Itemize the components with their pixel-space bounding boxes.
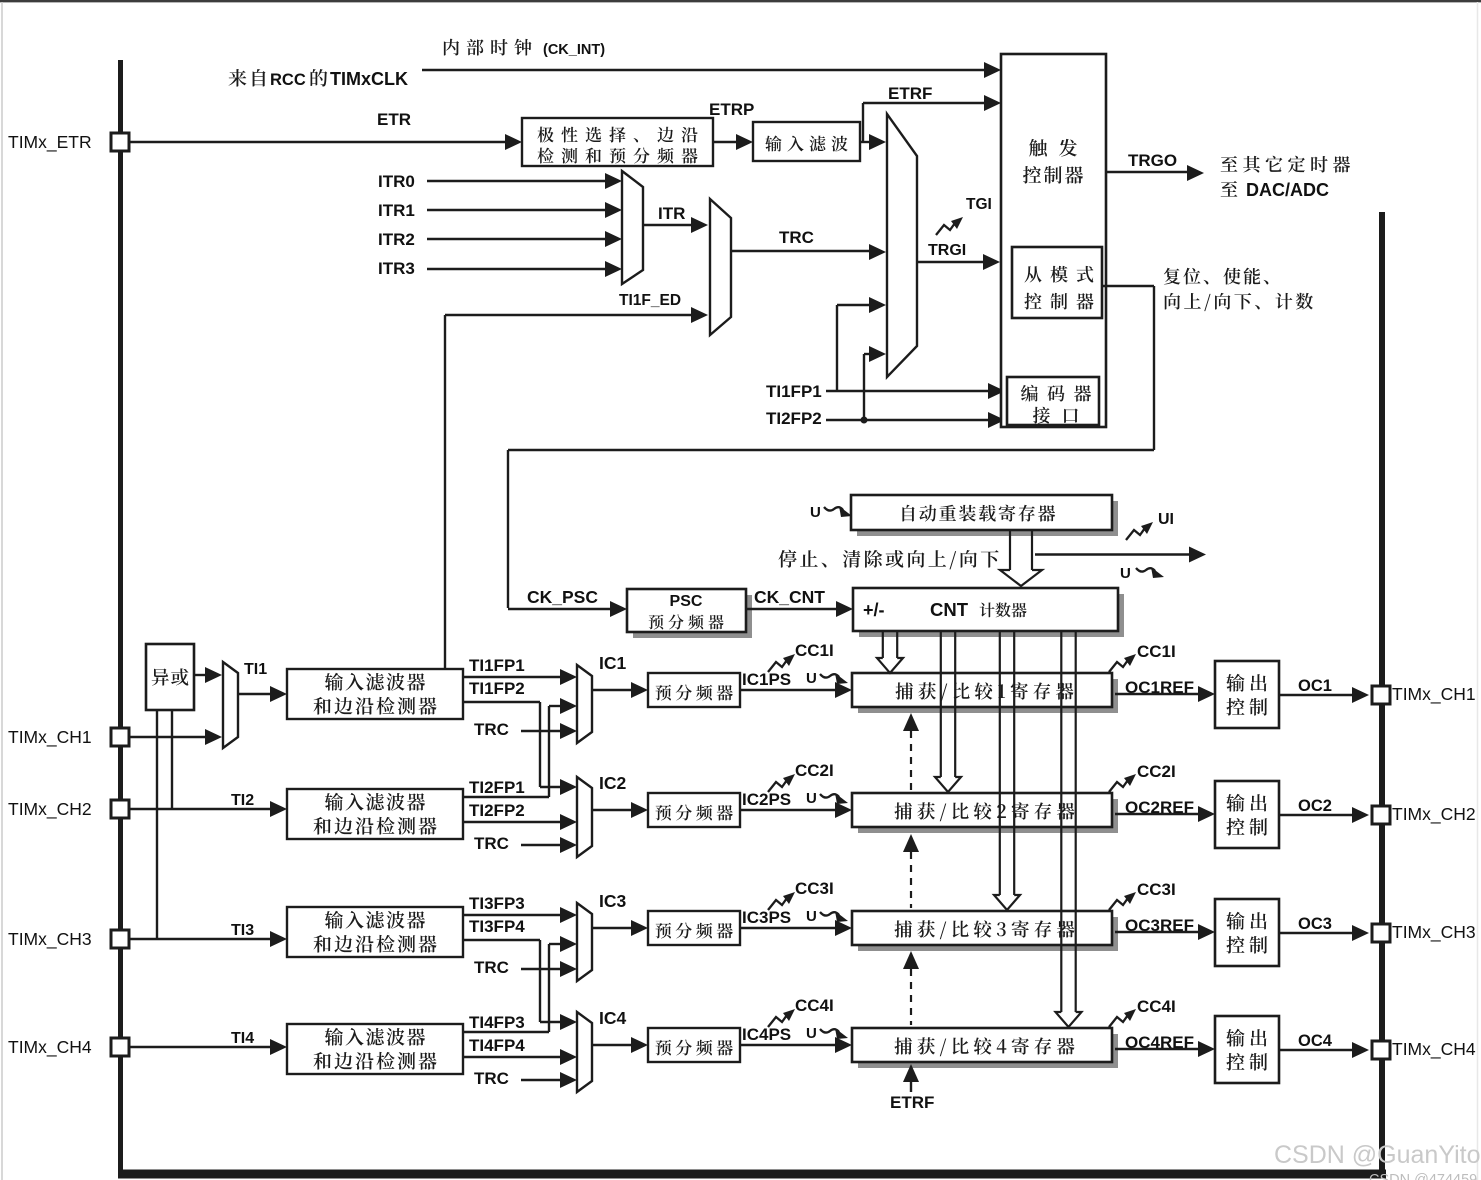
svg-text:CC2I: CC2I [1137, 762, 1176, 781]
squiggle CC4I left [768, 1009, 795, 1027]
svg-text:U: U [806, 790, 817, 807]
wire OC1REF [1115, 693, 1203, 695]
mux IC4 select [577, 1012, 592, 1092]
svg-text:CC4I: CC4I [795, 996, 834, 1015]
svg-text:TRC: TRC [474, 1069, 509, 1088]
svg-text:+/-: +/- [863, 600, 885, 620]
wire CK_PSC [508, 608, 617, 610]
hollow arrow CNT to capture1 [882, 631, 884, 659]
wire IC4PS to capture register [740, 1044, 842, 1046]
pad TIMx_CH3 [111, 930, 129, 948]
svg-text:TRC: TRC [474, 720, 509, 739]
wire OC1 to pad [1279, 694, 1356, 696]
wire TI1FP1 up to trigger mux [836, 305, 838, 391]
svg-text:TIMxCLK: TIMxCLK [330, 69, 408, 89]
svg-text:TIMx_CH4: TIMx_CH4 [1392, 1039, 1476, 1060]
wire ITR to TRC mux [643, 224, 696, 226]
wire TI1FP1 to encoder interface [826, 390, 995, 392]
svg-text:TI4FP3: TI4FP3 [469, 1013, 525, 1032]
box output control 1 [1215, 661, 1279, 728]
squiggle CC4I right [1109, 1009, 1136, 1027]
svg-text:TI2FP2: TI2FP2 [766, 409, 822, 428]
wire ETRF to trigger controller [863, 102, 991, 104]
wire IC2 to prescaler [592, 809, 636, 811]
wire ETRF into capture4 [903, 1064, 919, 1082]
wire ETRF to trigger mux [860, 141, 876, 143]
svg-text:TIMx_CH3: TIMx_CH3 [8, 929, 92, 950]
squiggle CC1I left [768, 654, 795, 672]
wire TI2FP2 to encoder interface [826, 419, 995, 421]
wire IC3 to prescaler [592, 927, 636, 929]
wire TI2FP1 up to previous channel [463, 796, 549, 798]
wire OC2 to pad [1279, 814, 1356, 816]
svg-text:TRGI: TRGI [928, 242, 966, 259]
mux TI1 select [223, 662, 238, 748]
svg-text:OC2: OC2 [1298, 797, 1332, 815]
svg-text:CK_CNT: CK_CNT [754, 587, 825, 607]
svg-text:TI1FP2: TI1FP2 [469, 679, 525, 698]
svg-text:TIMx_ETR: TIMx_ETR [8, 132, 92, 153]
svg-text:U: U [806, 1025, 817, 1042]
box output control 4 [1215, 1016, 1279, 1083]
svg-text:CC1I: CC1I [795, 641, 834, 660]
svg-text:DAC/ADC: DAC/ADC [1246, 180, 1329, 200]
wire ITR2 [427, 238, 612, 240]
svg-text:TRC: TRC [779, 228, 814, 247]
wire cross input from below [549, 705, 565, 707]
squiggle U auto-reload event [824, 506, 852, 517]
wire OC3 to pad [1279, 932, 1356, 934]
svg-text:TIMx_CH1: TIMx_CH1 [1392, 684, 1476, 705]
svg-text:CC3I: CC3I [795, 879, 834, 898]
box XOR [146, 644, 194, 710]
svg-text:ETRF: ETRF [888, 84, 932, 103]
mux IC3 select [577, 903, 592, 981]
svg-text:OC4: OC4 [1298, 1032, 1333, 1050]
hollow arrow ARR to CNT [1009, 530, 1011, 571]
wire cross input from below [549, 943, 565, 945]
svg-text:TIMx_CH2: TIMx_CH2 [1392, 804, 1476, 825]
box input filter edge detector 1 [287, 669, 463, 719]
timer boundary bottom border [118, 1170, 1386, 1179]
svg-text:TI2FP1: TI2FP1 [469, 778, 525, 797]
wire TI4FP3 up to previous channel [463, 1031, 549, 1033]
box PSC prescaler [633, 595, 752, 638]
wire TI1F_ED [445, 314, 696, 316]
wire TI1FP2 down to next channel [463, 701, 540, 703]
squiggle U capture event 3 [820, 911, 848, 922]
wire TRC channel 4 [521, 1079, 565, 1081]
svg-text:IC2PS: IC2PS [742, 790, 791, 809]
svg-text:IC1: IC1 [599, 653, 627, 673]
wire CH1 to TI1 mux [129, 736, 210, 738]
label 来自RCC的TIMxCLK [229, 69, 266, 87]
wire TRC channel 2 [521, 844, 565, 846]
box capture compare register 1 [858, 679, 1118, 713]
pad TIMx_CH3 right [1372, 924, 1390, 942]
svg-text:TRC: TRC [474, 834, 509, 853]
wire IC1 to prescaler [592, 689, 636, 691]
svg-text:TI3: TI3 [231, 922, 254, 939]
squiggle CC3I left [768, 892, 795, 910]
box encoder interface [1007, 377, 1099, 425]
label 停止、清除或向上/向下 [778, 550, 998, 570]
wire TI1F_ED vertical from input filter 1 [444, 315, 446, 669]
svg-text:TIMx_CH3: TIMx_CH3 [1392, 922, 1476, 943]
box prescaler channel 1 [648, 673, 740, 707]
wire TI2 [129, 808, 275, 810]
wire IC3PS to capture register [740, 927, 842, 929]
box trigger controller [1001, 54, 1106, 427]
box polarity-selection edge-detector prescaler [522, 118, 713, 166]
wire TI4 [129, 1046, 275, 1048]
svg-text:ITR2: ITR2 [378, 230, 415, 249]
wire ETR [129, 141, 512, 143]
svg-text:TIMx_CH1: TIMx_CH1 [8, 727, 92, 748]
svg-text:TGI: TGI [966, 196, 992, 213]
box input filter edge detector 2 [287, 789, 463, 839]
box prescaler channel 2 [648, 793, 740, 827]
wire IC4 to prescaler [592, 1044, 636, 1046]
wire OC4REF [1115, 1048, 1203, 1050]
svg-text:TI1FP1: TI1FP1 [766, 382, 822, 401]
dashed wire ETRF clear chain [903, 713, 919, 731]
svg-text:TI2: TI2 [231, 792, 254, 809]
wire TI2FP2 up to trigger mux [863, 354, 865, 420]
wire IC2PS to capture register [740, 809, 842, 811]
hollow arrow CNT to capture3 [999, 631, 1001, 896]
svg-text:U: U [806, 908, 817, 925]
svg-text:CNT: CNT [930, 599, 969, 620]
wire TRGI [917, 261, 988, 263]
mux trigger input select [887, 114, 917, 377]
wire TI1 [238, 693, 275, 695]
squiggle CC2I right [1109, 774, 1136, 792]
svg-text:TI4: TI4 [231, 1030, 254, 1047]
mux TRC select [710, 199, 731, 335]
pad TIMx_CH1 [111, 728, 129, 746]
label 至 DAC/ADC [1221, 181, 1238, 197]
wire OC3REF [1115, 931, 1203, 933]
wire TI4FP4 to mux [463, 1056, 567, 1058]
squiggle CC2I left [768, 774, 795, 792]
pad TIMx_CH4 [111, 1038, 129, 1056]
svg-text:ITR3: ITR3 [378, 259, 415, 278]
box prescaler channel 4 [648, 1028, 740, 1062]
wire TRC channel 3 [521, 968, 565, 970]
wire CK_INT [422, 69, 991, 71]
squiggle CC1I right [1109, 654, 1136, 672]
wire TRC to trigger mux [731, 250, 874, 252]
mux ITR select [622, 171, 643, 284]
svg-text:CSDN @GuanYitong: CSDN @GuanYitong [1274, 1141, 1481, 1169]
outer frame top edge [0, 0, 1481, 2]
box output control 2 [1215, 781, 1279, 848]
wire cross input from above [540, 1021, 565, 1023]
wire cross input from above [540, 786, 565, 788]
outer frame left edge [1, 2, 3, 1180]
box capture compare register 4 [858, 1034, 1118, 1068]
svg-text:PSC: PSC [670, 593, 703, 610]
svg-text:TI1: TI1 [244, 661, 267, 678]
svg-text:IC1PS: IC1PS [742, 670, 791, 689]
svg-text:CK_PSC: CK_PSC [527, 587, 598, 607]
squiggle U capture event 1 [820, 673, 848, 684]
box CNT counter [859, 594, 1124, 637]
svg-text:OC3: OC3 [1298, 915, 1332, 933]
svg-text:RCC: RCC [270, 71, 306, 89]
svg-text:TI1FP1: TI1FP1 [469, 656, 525, 675]
hollow arrow CNT to capture4 [1060, 631, 1062, 1013]
wire TI2FP2 to mux [463, 821, 567, 823]
svg-text:(CK_INT): (CK_INT) [543, 42, 605, 58]
pad TIMx_ETR [111, 133, 129, 151]
svg-text:TI2FP2: TI2FP2 [469, 801, 525, 820]
box input filter edge detector 4 [287, 1024, 463, 1074]
wire OC2REF [1115, 813, 1203, 815]
label 至其它定时器 [1221, 156, 1350, 173]
svg-text:IC3: IC3 [599, 891, 627, 911]
squiggle U capture event 2 [820, 793, 848, 804]
hollow arrow CNT to capture2 [940, 631, 942, 778]
svg-text:ETRF: ETRF [890, 1093, 934, 1112]
box capture compare register 3 [858, 917, 1118, 951]
svg-text:ETRP: ETRP [709, 100, 754, 119]
svg-text:CSDN @474459: CSDN @474459 [1369, 1172, 1477, 1180]
svg-text:TI3FP4: TI3FP4 [469, 917, 525, 936]
wire slave mode feedback [1102, 285, 1154, 287]
wire ITR0 [427, 180, 612, 182]
box input-filter ETR [753, 122, 860, 161]
box output control 3 [1215, 899, 1279, 966]
timer boundary left border [118, 60, 123, 1173]
svg-text:TIMx_CH4: TIMx_CH4 [8, 1037, 92, 1058]
squiggle UI interrupt [1126, 522, 1153, 540]
wire TRGO [1106, 171, 1192, 173]
svg-text:U: U [810, 504, 821, 521]
svg-text:TI3FP3: TI3FP3 [469, 894, 525, 913]
box input filter edge detector 3 [287, 907, 463, 957]
label 内部时钟 (CK_INT) [444, 39, 532, 56]
wire CK_CNT [746, 608, 843, 610]
svg-text:IC4: IC4 [599, 1008, 627, 1028]
svg-text:CC3I: CC3I [1137, 880, 1176, 899]
svg-text:ITR1: ITR1 [378, 201, 415, 220]
mux IC1 select [577, 665, 592, 743]
box capture compare register 2 [858, 799, 1118, 833]
svg-text:U: U [1120, 565, 1131, 582]
junction TI2FP2 [861, 417, 868, 424]
wire XOR input from CH2 [171, 710, 173, 809]
svg-text:ITR0: ITR0 [378, 172, 415, 191]
svg-text:CC1I: CC1I [1137, 642, 1176, 661]
svg-text:IC3PS: IC3PS [742, 908, 791, 927]
svg-text:TIMx_CH2: TIMx_CH2 [8, 799, 92, 820]
wire TI3 [129, 938, 275, 940]
squiggle CC3I right [1109, 892, 1136, 910]
svg-text:TI1F_ED: TI1F_ED [619, 292, 681, 309]
label 复位、使能、 [1164, 268, 1269, 285]
wire XOR output [194, 674, 210, 676]
wire update event [1035, 553, 1193, 555]
wire ITR1 [427, 209, 612, 211]
wire IC1PS to capture register [740, 689, 842, 691]
svg-text:U: U [806, 670, 817, 687]
svg-text:CC4I: CC4I [1137, 997, 1176, 1016]
pad TIMx_CH2 right [1372, 806, 1390, 824]
svg-text:OC1: OC1 [1298, 677, 1332, 695]
box auto-reload register [857, 501, 1118, 536]
svg-text:TI4FP4: TI4FP4 [469, 1036, 525, 1055]
wire OC4 to pad [1279, 1049, 1356, 1051]
pad TIMx_CH1 right [1372, 686, 1390, 704]
box slave mode controller [1012, 247, 1102, 318]
box prescaler channel 3 [648, 911, 740, 945]
wire TRC channel 1 [521, 730, 565, 732]
outer frame right edge [1477, 2, 1479, 1180]
svg-text:TRC: TRC [474, 958, 509, 977]
wire TI3FP3 to mux [463, 914, 567, 916]
timer boundary right border [1379, 212, 1385, 1173]
svg-text:IC4PS: IC4PS [742, 1025, 791, 1044]
wire ETRP [713, 141, 743, 143]
mux IC2 select [577, 777, 592, 857]
svg-text:ITR: ITR [658, 204, 685, 223]
wire TI1FP1 to mux [463, 676, 567, 678]
pad TIMx_CH2 [111, 800, 129, 818]
wire TI3FP4 down to next channel [463, 939, 540, 941]
squiggle TGI interrupt [936, 217, 963, 235]
squiggle U update event [1136, 567, 1164, 578]
svg-text:ETR: ETR [377, 110, 411, 129]
svg-text:CC2I: CC2I [795, 761, 834, 780]
svg-text:IC2: IC2 [599, 773, 627, 793]
label 向上/向下、计数 [1165, 293, 1313, 311]
wire ITR3 [427, 268, 612, 270]
squiggle U capture event 4 [820, 1028, 848, 1039]
wire ETRF branch up [862, 103, 864, 143]
svg-text:TRGO: TRGO [1128, 151, 1177, 170]
pad TIMx_CH4 right [1372, 1041, 1390, 1059]
svg-text:UI: UI [1158, 511, 1174, 528]
wire XOR input from CH3 [156, 710, 158, 939]
